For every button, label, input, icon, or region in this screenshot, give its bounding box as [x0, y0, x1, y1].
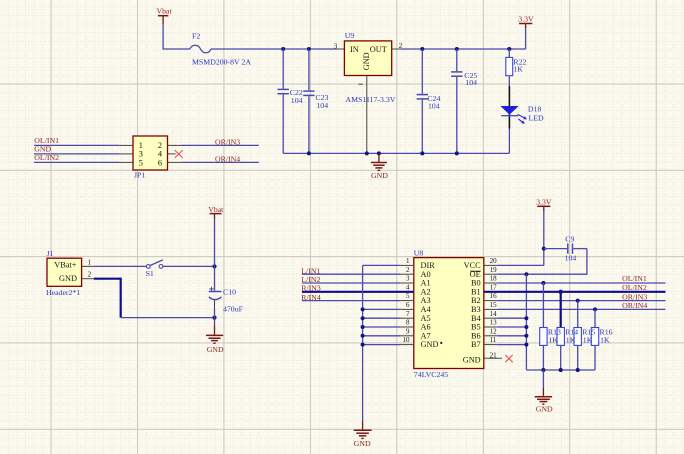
svg-text:J1: J1	[47, 249, 54, 258]
wire OR/IN4	[182, 161, 259, 163]
power port Vbat bottom	[208, 205, 224, 267]
wire B3 to OR/IN4	[497, 308, 665, 310]
pin 5 of JP1	[119, 161, 133, 163]
OE overline	[470, 270, 481, 272]
wire R/IN4 to U8 A3	[302, 300, 401, 302]
svg-text:GND: GND	[421, 340, 439, 349]
svg-text:OL/IN2: OL/IN2	[622, 283, 647, 292]
U8 right pin stubs	[484, 265, 502, 358]
wire R22 to LED	[508, 86, 510, 129]
svg-text:16: 16	[490, 292, 498, 300]
pin 1 of JP1	[119, 144, 133, 146]
IC U8 74LVC245	[414, 248, 484, 379]
svg-text:104: 104	[565, 254, 577, 263]
capacitor C24	[417, 49, 441, 153]
svg-text:OL/IN1: OL/IN1	[34, 136, 59, 145]
svg-text:VBat+: VBat+	[54, 261, 77, 270]
resistor R22	[506, 49, 527, 86]
svg-text:18: 18	[490, 275, 498, 283]
svg-text:6: 6	[158, 158, 162, 167]
svg-text:GND: GND	[207, 345, 224, 354]
svg-text:2: 2	[158, 141, 162, 150]
junction bus R13	[541, 368, 545, 372]
junction B6	[524, 334, 528, 338]
svg-text:1K: 1K	[600, 336, 610, 345]
wire U9 out to 3.3V	[402, 48, 526, 50]
svg-text:LED: LED	[529, 113, 545, 122]
ground symbol under resistors	[535, 370, 553, 413]
resistor R14	[557, 292, 564, 370]
wire C9 right to OE	[497, 249, 587, 275]
junction A5 gnd	[361, 316, 365, 320]
svg-text:5: 5	[406, 292, 410, 300]
junction C10 bottom	[212, 316, 216, 320]
svg-text:D18: D18	[528, 104, 542, 113]
junction gnd rail sym	[377, 151, 381, 155]
junction gnd rail C25	[455, 151, 459, 155]
svg-text:IN: IN	[350, 45, 359, 54]
junction gnd rail U9	[365, 151, 369, 155]
svg-text:JP1: JP1	[134, 171, 145, 180]
junction on input rail at C23	[307, 47, 311, 51]
ground symbol under C10	[206, 318, 224, 354]
svg-text:19: 19	[490, 266, 498, 274]
wire L/IN1 to U8 A0	[302, 273, 401, 275]
resistor R16	[591, 309, 598, 370]
svg-text:GND: GND	[463, 356, 481, 365]
U8 right pin numbers	[490, 257, 498, 360]
junction C9 tap	[542, 247, 546, 251]
ground symbol bottom center	[354, 421, 372, 448]
wire B0 to OL/IN1	[497, 282, 665, 284]
U8 right pin names	[463, 261, 482, 365]
power port 3.3V top-right	[518, 14, 534, 49]
connector JP1	[133, 136, 168, 180]
svg-text:3: 3	[406, 275, 410, 283]
capacitor C23	[303, 49, 328, 153]
svg-text:S1: S1	[146, 269, 154, 278]
junction B5	[524, 325, 528, 329]
svg-text:A4: A4	[421, 305, 432, 314]
svg-text:21: 21	[490, 352, 498, 360]
svg-text:A3: A3	[421, 296, 431, 305]
pin 4 of JP1	[168, 153, 176, 155]
svg-text:OUT: OUT	[370, 45, 387, 54]
wire OL/IN2 to JP1	[34, 161, 119, 163]
svg-text:470uF: 470uF	[223, 305, 244, 314]
wire U8 A5 stub to gnd	[363, 317, 401, 319]
svg-text:4: 4	[406, 283, 410, 291]
junction A4 gnd	[361, 307, 365, 311]
LED D18	[500, 104, 544, 123]
svg-text:Vbat: Vbat	[208, 205, 224, 214]
junction bus R14	[559, 368, 563, 372]
svg-text:MSMD200-8V 2A: MSMD200-8V 2A	[192, 58, 251, 67]
pin 1 of J1	[82, 258, 94, 266]
svg-text:104: 104	[428, 102, 440, 111]
pin 1 GND of U9	[358, 76, 367, 154]
U8 GND pin10 dot	[440, 342, 442, 344]
wire fuse to U9 pin3	[211, 48, 335, 50]
wire U8 GND stub to gnd	[363, 344, 401, 346]
pin 2 of U9	[392, 42, 403, 50]
capacitor C22	[278, 49, 303, 153]
svg-text:7: 7	[406, 310, 410, 318]
junction at C25 top	[455, 47, 459, 51]
svg-text:13: 13	[490, 319, 498, 327]
junction B3 R16	[593, 307, 597, 311]
svg-text:GND: GND	[362, 52, 371, 70]
junction at C24 top	[420, 47, 424, 51]
wire J1 pin2 down thick	[94, 279, 121, 318]
junction at R22 top	[507, 47, 511, 51]
svg-text:1K: 1K	[566, 336, 576, 345]
wire GND to JP1	[34, 153, 119, 155]
junction gnd rail C24	[420, 151, 424, 155]
wire OR/IN3	[182, 144, 259, 146]
svg-text:1K: 1K	[583, 336, 593, 345]
svg-text:OR/IN4: OR/IN4	[622, 301, 647, 310]
junction gnd rail C23	[307, 151, 311, 155]
svg-text:B4: B4	[471, 314, 482, 323]
svg-text:1: 1	[406, 257, 410, 265]
capacitor C9	[544, 235, 587, 263]
power port Vbat top-left	[157, 7, 173, 24]
wire B1 to OL/IN2 thick	[484, 291, 666, 293]
op-amp U9 regulator AMS1117-3.3V	[344, 31, 395, 104]
wire L/IN2 to U8 A1	[302, 282, 401, 284]
svg-text:OR/IN3: OR/IN3	[215, 138, 240, 147]
svg-text:9: 9	[406, 327, 410, 335]
svg-text:A1: A1	[421, 279, 431, 288]
svg-text:1K: 1K	[513, 65, 523, 74]
junction B2 R15	[576, 299, 580, 303]
wire U8 A6 stub to gnd	[363, 326, 401, 328]
svg-text:C9: C9	[565, 235, 574, 244]
svg-text:A2: A2	[421, 287, 431, 296]
svg-text:2: 2	[88, 271, 92, 279]
wire gnd vertical left of U8	[362, 265, 364, 421]
svg-text:DIR: DIR	[421, 261, 436, 270]
svg-text:GND: GND	[536, 404, 553, 413]
U8 left pin names	[421, 261, 439, 349]
junction B7	[524, 343, 528, 347]
junction bus R15	[576, 368, 580, 372]
power port 3.3V above U8	[536, 197, 552, 265]
wire B5 to gnd	[497, 326, 526, 328]
svg-text:Vbat: Vbat	[157, 7, 173, 16]
wire B4 to gnd	[497, 317, 526, 319]
junction B0 R13	[541, 281, 545, 285]
capacitor C10	[209, 266, 244, 317]
svg-text:OR/IN3: OR/IN3	[622, 292, 647, 301]
svg-text:1: 1	[88, 258, 92, 266]
svg-text:OR/IN4: OR/IN4	[215, 155, 240, 164]
svg-text:104: 104	[291, 96, 303, 105]
svg-text:U8: U8	[414, 248, 424, 257]
wire bottom gnd run	[121, 317, 215, 319]
svg-text:B1: B1	[471, 287, 481, 296]
svg-text:B7: B7	[471, 340, 481, 349]
svg-text:3: 3	[334, 42, 338, 50]
svg-text:5: 5	[139, 158, 143, 167]
wire ground rail under U9	[283, 152, 509, 154]
no-connect X on U8 pin 21	[505, 355, 512, 362]
svg-text:GND: GND	[59, 274, 77, 283]
svg-text:74LVC245: 74LVC245	[414, 370, 448, 379]
wire U8 A4 stub to gnd	[363, 308, 401, 310]
svg-text:B6: B6	[471, 331, 481, 340]
resistor R13	[540, 283, 547, 370]
wire U8 DIR to gnd vertical	[363, 264, 401, 266]
svg-text:3.3V: 3.3V	[518, 14, 534, 23]
svg-text:B0: B0	[471, 279, 481, 288]
junction OE gnd vertical	[524, 272, 528, 276]
svg-text:B2: B2	[471, 296, 481, 305]
wire B2 to OR/IN3	[497, 300, 665, 302]
resistor value labels R13-R16	[548, 327, 613, 344]
wire B6 to gnd	[497, 335, 526, 337]
svg-text:12: 12	[490, 327, 498, 335]
pin 6 of JP1	[168, 161, 182, 163]
svg-text:GND: GND	[354, 439, 371, 448]
junction Vbat node	[212, 264, 216, 268]
svg-text:3.3V: 3.3V	[536, 197, 552, 206]
svg-text:17: 17	[490, 283, 498, 291]
svg-text:F2: F2	[192, 31, 200, 40]
junction B1 R14	[559, 290, 563, 294]
pin 2 of J1	[82, 271, 94, 279]
junction U8 GND	[361, 343, 365, 347]
U8 left pin numbers	[403, 257, 411, 344]
svg-text:1K: 1K	[549, 336, 559, 345]
wire R/IN3 to U8 A2 thick	[302, 291, 414, 293]
svg-text:14: 14	[490, 310, 498, 318]
ground symbol under U9	[371, 153, 388, 179]
svg-text:A0: A0	[421, 270, 431, 279]
junction A7 gnd	[361, 334, 365, 338]
wire J1 pin1 to S1	[94, 265, 147, 267]
svg-text:C10: C10	[223, 287, 236, 296]
svg-text:104: 104	[465, 78, 477, 87]
U8 left pin stubs 1-10	[401, 265, 414, 344]
wire VCC to 3.3V	[497, 264, 544, 266]
fuse F2	[190, 31, 251, 66]
svg-text:20: 20	[490, 257, 498, 265]
svg-text:6: 6	[406, 301, 410, 309]
connector J1	[46, 249, 82, 297]
svg-text:GND: GND	[371, 171, 388, 180]
wire OL/IN1 to JP1	[34, 144, 119, 146]
pin 3 of U9	[334, 42, 345, 50]
wire U8 A7 stub to gnd	[363, 335, 401, 337]
svg-text:U9: U9	[345, 31, 355, 40]
svg-text:104: 104	[316, 101, 328, 110]
pin 2 of JP1	[168, 144, 182, 146]
resistor R15	[574, 301, 581, 370]
svg-text:2: 2	[406, 266, 410, 274]
junction on input rail at C22	[281, 47, 285, 51]
svg-text:Header2*1: Header2*1	[46, 288, 80, 297]
svg-text:8: 8	[406, 319, 410, 327]
svg-text:11: 11	[490, 336, 497, 344]
wire LED to ground rail	[508, 129, 510, 154]
junction A6 gnd	[361, 325, 365, 329]
svg-text:10: 10	[403, 336, 411, 344]
wire OE/B gnd vertical	[525, 274, 527, 370]
wire S1 to Vbat node	[163, 265, 215, 267]
junction B4	[524, 316, 528, 320]
svg-text:A6: A6	[421, 323, 431, 332]
svg-text:A5: A5	[421, 314, 431, 323]
capacitor C25	[451, 49, 477, 153]
svg-text:AMS1117-3.3V: AMS1117-3.3V	[346, 95, 396, 104]
svg-text:A7: A7	[421, 331, 431, 340]
svg-text:3: 3	[139, 150, 143, 159]
no-connect X on JP1 pin 4	[175, 150, 183, 158]
wire B7 to gnd	[497, 344, 526, 346]
svg-text:B5: B5	[471, 323, 481, 332]
svg-text:B3: B3	[471, 305, 481, 314]
svg-text:15: 15	[490, 301, 498, 309]
wire resistor gnd bus	[526, 369, 595, 371]
svg-text:1: 1	[139, 141, 143, 150]
svg-text:VCC: VCC	[464, 261, 482, 270]
wire Vbat vertical	[163, 24, 190, 49]
switch S1	[146, 260, 163, 278]
svg-text:OL/IN1: OL/IN1	[622, 274, 647, 283]
pin 3 of JP1	[119, 153, 133, 155]
